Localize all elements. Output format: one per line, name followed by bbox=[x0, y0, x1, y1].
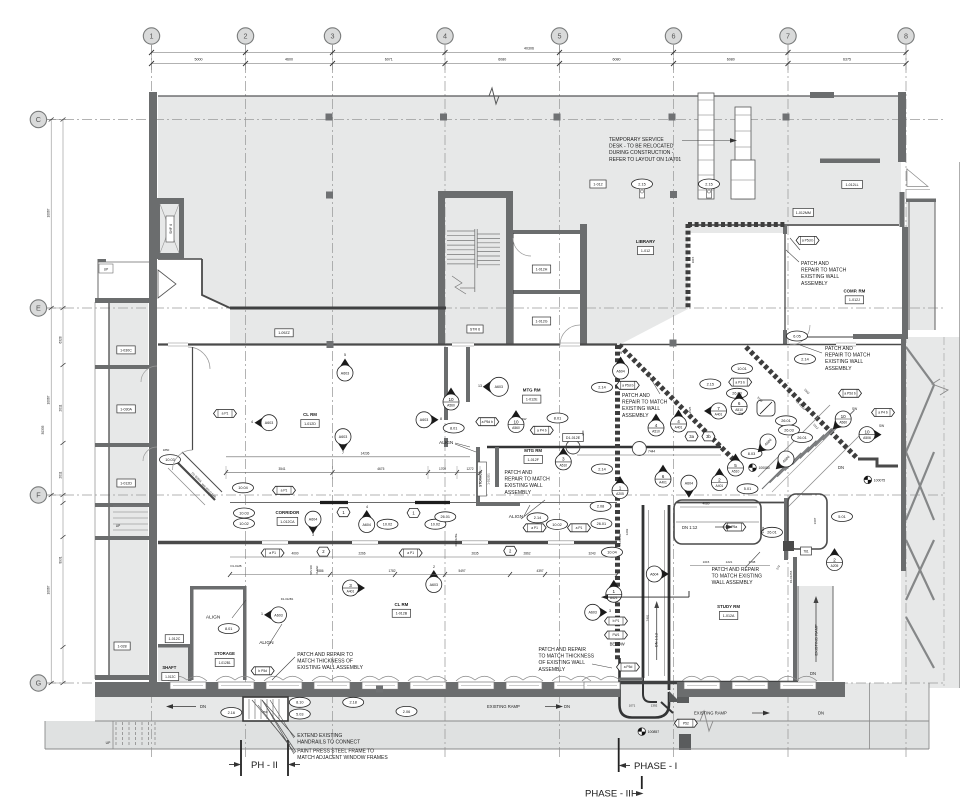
room tag 1-012D bbox=[301, 420, 319, 428]
tag hexagon a P5d b bbox=[796, 236, 819, 244]
svg-text:A401: A401 bbox=[716, 484, 724, 488]
svg-text:10: 10 bbox=[841, 414, 847, 419]
door leaf right of 1-012LL bbox=[906, 169, 908, 186]
room tag 1-012 bbox=[590, 180, 606, 188]
door arc 1-012H bbox=[513, 238, 531, 256]
study room top wall bbox=[676, 502, 788, 504]
keynote ellipse 2.08 bbox=[590, 501, 611, 511]
svg-text:4: 4 bbox=[251, 420, 253, 424]
svg-text:1525: 1525 bbox=[688, 406, 692, 413]
room tag D1-012E bbox=[563, 434, 584, 442]
svg-text:3b: 3b bbox=[706, 434, 711, 439]
svg-text:G: G bbox=[36, 679, 42, 688]
room tag 1-09ZZ bbox=[275, 329, 293, 337]
svg-text:a P1: a P1 bbox=[576, 526, 583, 530]
SHF4 interior X lines bbox=[160, 204, 179, 253]
room tag 1-012J bbox=[845, 296, 863, 304]
hatched diagonal wall comp rm to stair bbox=[746, 347, 858, 459]
svg-text:1-012MM: 1-012MM bbox=[796, 211, 811, 215]
room tag 1-012B1 bbox=[215, 659, 234, 667]
corridor bottom wall with door gaps bbox=[158, 541, 617, 544]
top boundary wall of slab bbox=[158, 95, 901, 97]
svg-text:4: 4 bbox=[366, 505, 368, 509]
svg-text:2.15: 2.15 bbox=[705, 182, 712, 186]
keynote ellipse 10.02 bbox=[547, 519, 568, 529]
svg-text:1850: 1850 bbox=[163, 448, 170, 452]
svg-text:2.14: 2.14 bbox=[598, 467, 605, 471]
corridor 1-09ZZ bottom wall bbox=[158, 343, 617, 345]
keynote ellipse 2.15 bbox=[700, 379, 721, 389]
svg-text:UP: UP bbox=[104, 268, 108, 272]
room tag 1-028 bbox=[114, 642, 130, 650]
section marker 7/A401 bbox=[704, 403, 727, 419]
elevation marker A603 bbox=[416, 412, 442, 428]
tag hexagon a P1 bbox=[273, 486, 296, 494]
room tag 1-012C bbox=[165, 635, 183, 643]
svg-text:13: 13 bbox=[478, 384, 482, 388]
1-012H 1-012G divider walls bbox=[513, 230, 580, 234]
svg-text:26.01: 26.01 bbox=[797, 436, 807, 440]
keynote ellipse 6.05 bbox=[787, 331, 808, 341]
svg-text:1015: 1015 bbox=[703, 560, 710, 564]
svg-text:10.02: 10.02 bbox=[431, 523, 441, 527]
keynote ellipse 2.14 bbox=[527, 513, 548, 523]
svg-text:1-012E: 1-012E bbox=[526, 398, 538, 402]
svg-text:3: 3 bbox=[312, 533, 314, 537]
svg-text:DURING CONSTRUCTION -: DURING CONSTRUCTION - bbox=[609, 150, 674, 156]
svg-text:10067: 10067 bbox=[47, 208, 51, 217]
elevation marker A604 bbox=[613, 351, 629, 379]
svg-text:6080: 6080 bbox=[498, 58, 506, 62]
svg-text:5.01: 5.01 bbox=[838, 515, 845, 519]
tag hexagon a P1 bbox=[399, 549, 422, 557]
svg-text:a P1: a P1 bbox=[269, 551, 276, 555]
svg-text:2: 2 bbox=[433, 565, 435, 569]
elevation marker A604 bbox=[305, 511, 321, 537]
leader extend handrails bbox=[270, 700, 294, 738]
svg-text:a P1: a P1 bbox=[222, 412, 229, 416]
stair inset in bottom ramp bbox=[243, 697, 288, 721]
top-right vertical wall bbox=[898, 92, 906, 162]
svg-text:2: 2 bbox=[244, 32, 248, 41]
room tag 1-012CA bbox=[277, 517, 298, 525]
svg-text:10067: 10067 bbox=[47, 395, 51, 404]
dark block below rounded rect bbox=[783, 541, 794, 551]
svg-text:2.06: 2.06 bbox=[403, 710, 410, 714]
svg-text:30335: 30335 bbox=[41, 425, 45, 434]
svg-text:TO MATCH THICKNESS: TO MATCH THICKNESS bbox=[539, 654, 595, 660]
bottom band inner vertical edge bbox=[869, 683, 871, 749]
svg-text:10: 10 bbox=[513, 419, 519, 424]
right strip break symbol bbox=[932, 379, 948, 395]
1-012H 1-012G rooms right wall bbox=[580, 224, 587, 345]
elevation marker A604 bbox=[646, 566, 669, 582]
keynote ellipse 2.14 bbox=[592, 382, 613, 392]
CL RM 1-012D left wall bbox=[192, 347, 194, 450]
svg-text:10.03: 10.03 bbox=[239, 511, 249, 515]
svg-text:2.15: 2.15 bbox=[638, 182, 645, 186]
svg-text:3: 3 bbox=[609, 609, 611, 613]
svg-text:C: C bbox=[36, 115, 41, 124]
keynote ellipse 2.16 bbox=[221, 708, 242, 718]
svg-text:1-012F: 1-012F bbox=[528, 458, 540, 462]
upper floor slab fill bbox=[158, 96, 901, 233]
svg-text:10067: 10067 bbox=[47, 585, 51, 594]
section marker 4/A401 bbox=[671, 410, 687, 433]
section marker 10/A506 bbox=[859, 427, 882, 443]
svg-text:a P3 b: a P3 b bbox=[735, 380, 745, 384]
svg-text:1-012D: 1-012D bbox=[120, 481, 132, 485]
svg-text:PATCH AND: PATCH AND bbox=[622, 393, 650, 399]
tag hexagon a P1 bbox=[214, 410, 237, 418]
notch wall at 1-09ZZ corner bbox=[202, 259, 230, 308]
keynote ellipse 10.01 bbox=[732, 364, 753, 374]
column circle bbox=[632, 442, 646, 456]
keynote ellipse 5.01 bbox=[737, 484, 758, 494]
svg-text:A401: A401 bbox=[659, 481, 667, 485]
tag hexagon P52 bbox=[674, 719, 697, 727]
svg-text:EXISTING WALL: EXISTING WALL bbox=[825, 359, 863, 365]
svg-text:4: 4 bbox=[443, 32, 447, 41]
svg-text:2: 2 bbox=[833, 557, 836, 562]
section marker 2/A205 bbox=[827, 548, 843, 571]
svg-text:CORRIDOR: CORRIDOR bbox=[275, 510, 300, 515]
storage 1-012D1 vertical label bbox=[478, 462, 487, 496]
svg-text:A560: A560 bbox=[512, 426, 520, 430]
temporary service desk counters bbox=[698, 93, 714, 199]
svg-text:TEMPORARY SERVICE: TEMPORARY SERVICE bbox=[609, 137, 664, 143]
room tag 1-012LL bbox=[842, 180, 863, 188]
svg-text:REPAIR TO MATCH: REPAIR TO MATCH bbox=[801, 268, 847, 274]
tag hexagon a P5d bbox=[617, 663, 640, 671]
leader arrows misc bbox=[455, 443, 470, 447]
section marker 6/A401 bbox=[655, 465, 671, 488]
svg-text:PATCH AND: PATCH AND bbox=[825, 346, 853, 352]
svg-text:1-012D1: 1-012D1 bbox=[487, 473, 491, 485]
keynote ellipse 10.03 bbox=[234, 508, 255, 518]
survey point 100080 bbox=[749, 464, 770, 472]
phase-I hatched wall vertical bbox=[615, 345, 620, 660]
dim line row 3541 4675 1700 bbox=[226, 472, 480, 474]
leader from patch note to phase wall bbox=[648, 374, 660, 394]
svg-text:A401: A401 bbox=[347, 590, 355, 594]
svg-text:1: 1 bbox=[150, 32, 154, 41]
svg-text:3a: 3a bbox=[689, 434, 694, 439]
svg-text:A506: A506 bbox=[863, 436, 871, 440]
svg-text:A205: A205 bbox=[616, 492, 624, 496]
left mid slab fill bbox=[158, 224, 202, 259]
stair STR6 left wall bbox=[438, 191, 445, 345]
zigzag wall right of diagonal stair bbox=[858, 459, 898, 466]
svg-text:761: 761 bbox=[803, 549, 809, 553]
svg-text:DN 1:12: DN 1:12 bbox=[655, 633, 659, 647]
stair inset leader diagonals bbox=[252, 700, 290, 745]
main left vertical wall bbox=[149, 92, 157, 686]
keynote ellipse 8.01 bbox=[547, 413, 568, 423]
svg-text:1-012G: 1-012G bbox=[536, 319, 548, 323]
svg-text:MATCH THICKNESS OF: MATCH THICKNESS OF bbox=[297, 659, 353, 665]
svg-text:2011: 2011 bbox=[59, 404, 63, 411]
svg-text:EXISTING WALL ASSEMBLY: EXISTING WALL ASSEMBLY bbox=[297, 665, 363, 671]
door triangle slab left bbox=[158, 270, 176, 298]
svg-text:8931: 8931 bbox=[59, 556, 63, 563]
svg-text:5: 5 bbox=[344, 353, 346, 357]
svg-text:LIBRARY: LIBRARY bbox=[636, 239, 655, 244]
room tag 1-012G bbox=[532, 317, 550, 325]
svg-text:D1-012E: D1-012E bbox=[566, 436, 581, 440]
elevation marker A603 bbox=[261, 607, 287, 623]
svg-text:2635: 2635 bbox=[471, 552, 478, 556]
svg-text:EXISTING WALL: EXISTING WALL bbox=[622, 406, 660, 412]
ramp chamfer diagonal bbox=[661, 702, 673, 713]
svg-text:STUDY RM: STUDY RM bbox=[717, 604, 740, 609]
svg-text:10.02: 10.02 bbox=[239, 522, 249, 526]
column squares on grid C bbox=[326, 114, 333, 121]
short wall left of ramp bottom bbox=[619, 678, 643, 681]
svg-text:1272: 1272 bbox=[466, 467, 473, 471]
stair STR6 top wall bbox=[438, 191, 513, 198]
svg-text:DN: DN bbox=[564, 704, 570, 709]
svg-text:2: 2 bbox=[718, 477, 721, 482]
svg-text:COMP. RM: COMP. RM bbox=[843, 288, 865, 293]
svg-text:A604: A604 bbox=[362, 523, 370, 527]
svg-text:1-09ZZ: 1-09ZZ bbox=[278, 331, 290, 335]
section marker 10/A560 bbox=[443, 388, 459, 411]
svg-text:SHF 4: SHF 4 bbox=[169, 224, 173, 234]
fixture below keynote 2.15 b bbox=[707, 189, 712, 198]
long dark wall above corridor 1-09ZZ bbox=[230, 307, 446, 310]
dim rows below corridor bbox=[230, 556, 617, 558]
svg-text:EXISTING WALL: EXISTING WALL bbox=[801, 274, 839, 280]
svg-text:2.14: 2.14 bbox=[801, 357, 808, 361]
svg-text:A510: A510 bbox=[559, 464, 567, 468]
svg-text:PHASE - I: PHASE - I bbox=[634, 761, 677, 772]
svg-text:a P4 b: a P4 b bbox=[878, 411, 888, 415]
existing ramp up arrow bbox=[815, 600, 817, 662]
svg-text:4600: 4600 bbox=[285, 58, 293, 62]
keynote ellipse 8.03 bbox=[741, 449, 762, 459]
tag hexagon b P5d bbox=[251, 667, 274, 675]
svg-text:6071: 6071 bbox=[385, 58, 393, 62]
svg-text:2.14: 2.14 bbox=[598, 386, 605, 390]
section marker 10/A560 bbox=[508, 410, 524, 433]
svg-text:D1-012B1: D1-012B1 bbox=[281, 597, 294, 601]
G-line window wall dark band bbox=[95, 682, 620, 697]
dim line 14236 bbox=[226, 456, 470, 458]
svg-text:CLEAR: CLEAR bbox=[315, 566, 319, 575]
svg-text:EXISTING RAMP: EXISTING RAMP bbox=[487, 704, 520, 709]
svg-text:DN 1:12: DN 1:12 bbox=[682, 525, 698, 530]
keynote ellipse 2.15 bbox=[699, 179, 720, 189]
elevation marker A603 bbox=[426, 565, 442, 593]
left strip room dividers bbox=[95, 298, 149, 303]
svg-text:CL RM: CL RM bbox=[394, 602, 408, 607]
svg-text:3: 3 bbox=[562, 457, 565, 462]
elevation marker A603 bbox=[337, 353, 353, 381]
svg-text:1392: 1392 bbox=[651, 704, 658, 708]
survey point 100075 bbox=[864, 476, 885, 484]
leader lines bottom notes bbox=[262, 700, 295, 737]
room tag 1-030C bbox=[117, 346, 135, 354]
right upper strip fill bbox=[906, 202, 935, 330]
keynote ellipse 10.04 bbox=[233, 483, 254, 493]
elevation marker A604 bbox=[770, 448, 797, 475]
svg-text:6: 6 bbox=[662, 474, 665, 479]
UP stair room top-left bbox=[98, 259, 106, 262]
svg-text:2266: 2266 bbox=[358, 552, 365, 556]
column squares on corridor line bbox=[327, 341, 334, 348]
svg-text:10.02: 10.02 bbox=[383, 523, 393, 527]
svg-text:3243: 3243 bbox=[588, 552, 595, 556]
svg-text:8: 8 bbox=[440, 417, 442, 421]
existing ramp strip walls bbox=[797, 586, 799, 681]
left room strip fill bbox=[109, 302, 148, 679]
svg-text:SW: SW bbox=[738, 412, 743, 416]
top dimension line overall bbox=[152, 52, 907, 54]
svg-text:1700: 1700 bbox=[439, 467, 446, 471]
svg-text:PATCH AND REPAIR: PATCH AND REPAIR bbox=[712, 567, 760, 573]
svg-text:6080: 6080 bbox=[613, 58, 621, 62]
right strip inner dash line bbox=[943, 337, 945, 688]
left room strip outer wall bbox=[108, 302, 110, 679]
tag hexagon a P1 bbox=[261, 549, 284, 557]
svg-text:2.08: 2.08 bbox=[597, 505, 604, 509]
svg-text:PATCH AND: PATCH AND bbox=[801, 261, 829, 267]
right side diagonal braces bbox=[906, 347, 934, 385]
elevation marker A603 bbox=[585, 604, 611, 620]
svg-text:1-012C: 1-012C bbox=[169, 637, 181, 641]
svg-text:1221: 1221 bbox=[726, 560, 733, 564]
ramp up arrow bbox=[656, 605, 658, 660]
svg-text:A603: A603 bbox=[430, 583, 438, 587]
tag hexagon FW1 bbox=[605, 631, 628, 639]
room tag 1-012A bbox=[719, 612, 737, 620]
top wall notch near grid 7 bbox=[810, 92, 834, 98]
window units on G wall bbox=[170, 682, 206, 689]
svg-text:a P1: a P1 bbox=[531, 526, 538, 530]
keynote ellipse 26.01 bbox=[776, 416, 797, 426]
svg-text:4: 4 bbox=[677, 419, 680, 424]
svg-text:D1-012Ba: D1-012Ba bbox=[454, 533, 458, 546]
MTG RM 1-012F storage walls bbox=[476, 447, 480, 505]
stair STR6 right wall bbox=[506, 191, 513, 345]
keynote ellipse 8.01 bbox=[218, 624, 239, 634]
break symbol on top wall bbox=[489, 88, 499, 104]
column square mid slab bbox=[326, 192, 333, 199]
section marker 2/A401 bbox=[711, 468, 727, 491]
svg-text:A603: A603 bbox=[339, 435, 347, 439]
stair STR6 stringer bbox=[474, 229, 476, 292]
svg-text:SHAFT: SHAFT bbox=[162, 665, 176, 670]
svg-text:a P5d: a P5d bbox=[624, 665, 633, 669]
tag hexagon a P4 b bbox=[530, 426, 553, 434]
svg-text:10.04: 10.04 bbox=[607, 551, 617, 555]
keynote ellipse 10.03 bbox=[160, 455, 181, 465]
svg-text:REPAIR TO MATCH: REPAIR TO MATCH bbox=[825, 353, 871, 359]
keynote ellipse 26.01 bbox=[792, 433, 813, 443]
svg-text:1607: 1607 bbox=[813, 517, 817, 524]
elevation marker A603 bbox=[478, 377, 508, 396]
library right hatched wall bbox=[686, 224, 691, 309]
svg-text:1-030C: 1-030C bbox=[120, 348, 132, 352]
svg-text:b P5d: b P5d bbox=[258, 669, 267, 673]
svg-text:100857: 100857 bbox=[648, 730, 659, 734]
svg-text:7: 7 bbox=[342, 451, 344, 455]
svg-text:26.01: 26.01 bbox=[597, 522, 607, 526]
survey point 100857 bbox=[638, 728, 659, 736]
keynote ellipse 26.03 bbox=[727, 388, 748, 398]
door arc library lower-left bbox=[560, 325, 580, 345]
keynote ellipse 5.03 bbox=[289, 709, 310, 719]
svg-text:a P5d b: a P5d b bbox=[844, 392, 856, 396]
svg-text:A560: A560 bbox=[839, 421, 847, 425]
leader thickness note right bbox=[592, 664, 612, 668]
svg-text:6375: 6375 bbox=[843, 58, 851, 62]
keynote ellipse 5.01 bbox=[832, 512, 853, 522]
tag hexagon a P5d b bbox=[839, 389, 862, 397]
ramp corridor bottom blocks bbox=[677, 690, 689, 703]
keynote ellipse 2.06 bbox=[396, 706, 417, 716]
svg-text:BELOW: BELOW bbox=[610, 642, 625, 647]
svg-text:D1-012B: D1-012B bbox=[230, 564, 241, 568]
svg-text:P52: P52 bbox=[683, 721, 689, 725]
svg-text:8.01: 8.01 bbox=[225, 627, 232, 631]
svg-text:26.01: 26.01 bbox=[781, 419, 791, 423]
leader through 1/A421 bbox=[604, 596, 689, 598]
svg-text:7: 7 bbox=[717, 406, 720, 411]
svg-text:PHASE - III: PHASE - III bbox=[585, 789, 634, 800]
keynote ellipse 2.14 bbox=[592, 464, 613, 474]
svg-text:1-012H: 1-012H bbox=[536, 267, 548, 271]
svg-text:OF EXISTING WALL: OF EXISTING WALL bbox=[539, 660, 586, 666]
svg-text:1402: 1402 bbox=[761, 526, 765, 533]
section marker 4/A510 bbox=[648, 414, 664, 437]
section marker 10/A560 bbox=[833, 411, 851, 429]
keynote ellipse 2.18 bbox=[343, 697, 364, 707]
svg-text:D1-012TA: D1-012TA bbox=[789, 571, 793, 584]
keynote ellipse 2.15 bbox=[632, 179, 653, 189]
svg-text:UP: UP bbox=[106, 741, 111, 745]
wall between CL RM and MTG RM bbox=[444, 347, 448, 420]
stair shaft STR6 fill bbox=[438, 191, 513, 345]
svg-text:6: 6 bbox=[738, 401, 741, 406]
svg-text:1-012: 1-012 bbox=[593, 182, 602, 186]
svg-text:10.03: 10.03 bbox=[165, 458, 175, 462]
svg-text:940: 940 bbox=[581, 430, 585, 435]
fixture below keynote 2.15 a bbox=[640, 189, 645, 198]
shaft 1-012C walls bottom-left bbox=[158, 644, 192, 648]
svg-text:10.02: 10.02 bbox=[552, 523, 562, 527]
section marker 6/A510 bbox=[731, 392, 747, 415]
svg-text:MIN 900: MIN 900 bbox=[309, 565, 313, 575]
MTG RM 1-012E left wall stub bbox=[466, 347, 470, 402]
keynote ellipse 26.01 bbox=[762, 527, 783, 537]
corridor upper line with door headers bbox=[230, 502, 617, 504]
room tag 1-012E bbox=[523, 395, 541, 403]
svg-text:1-012A: 1-012A bbox=[723, 614, 735, 618]
room tag 761 bbox=[801, 547, 812, 555]
grid bubbles 1-8 bbox=[143, 28, 159, 44]
right lower strip fill bbox=[901, 337, 960, 688]
keynote ellipse 10.02 bbox=[425, 519, 446, 529]
section marker 5/A510 bbox=[728, 454, 744, 477]
svg-text:100080: 100080 bbox=[759, 466, 770, 470]
svg-text:SW: SW bbox=[522, 417, 527, 421]
svg-text:4000: 4000 bbox=[291, 552, 298, 556]
svg-text:8.01: 8.01 bbox=[554, 416, 561, 420]
partition tag 1 bbox=[337, 508, 350, 517]
partition tag 3a bbox=[685, 432, 698, 441]
